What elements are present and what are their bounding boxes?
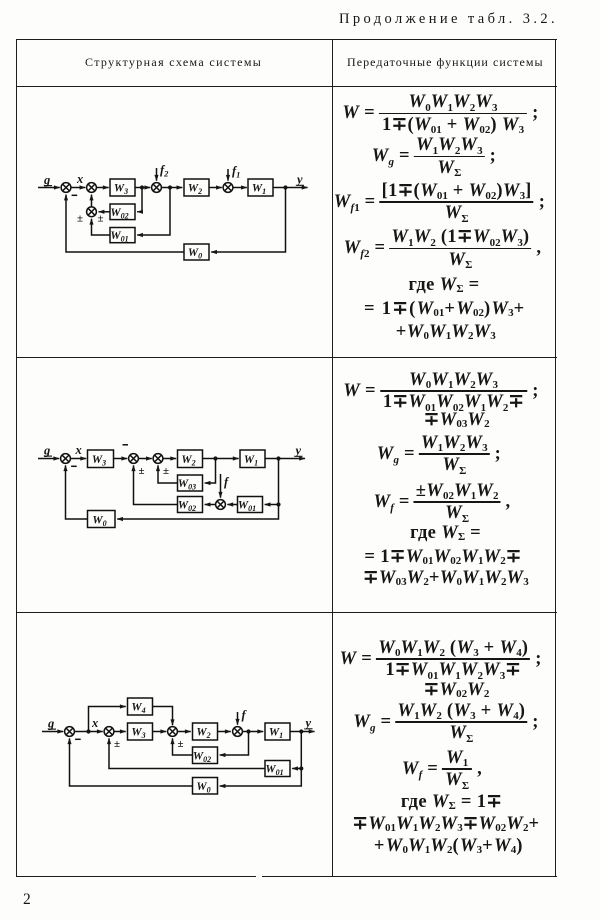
block W03 <box>178 475 203 492</box>
node output dot <box>283 185 287 189</box>
wire W2 to W1 <box>203 458 239 460</box>
summing junction S1 <box>61 183 71 193</box>
page number <box>23 891 31 909</box>
wire W01 to S5 <box>227 504 237 506</box>
wire f into S4 <box>237 712 239 725</box>
block W3 <box>88 450 114 468</box>
wire S3 to W2 <box>161 187 182 189</box>
wire W0 to S1 <box>70 738 193 786</box>
wire W2 to S4 <box>218 731 231 733</box>
block W1 <box>265 723 290 740</box>
block W3 <box>128 723 153 740</box>
wire g to S1 <box>38 458 59 460</box>
wire node D to W01 input <box>265 504 279 506</box>
wire node G to W01 input <box>292 768 301 770</box>
wire W01 to S2 <box>109 738 265 768</box>
block W0 <box>184 244 209 261</box>
minus sign at S1 <box>75 738 81 740</box>
summing junction S2 <box>87 183 97 193</box>
block W02 <box>193 747 218 764</box>
wire S4 to W1 <box>242 731 263 733</box>
summing junction S2 <box>104 727 114 737</box>
column headers <box>85 55 262 70</box>
node output dot <box>299 729 303 733</box>
block W02 <box>110 204 135 220</box>
node g input label <box>43 173 52 187</box>
wire output to W0 input <box>211 188 285 253</box>
wire S2 to S3 <box>138 458 151 460</box>
wire W0 to S1 <box>66 195 184 252</box>
wire node C to W03 input <box>205 459 216 484</box>
wire g to S1 <box>38 187 60 189</box>
wire S2 to W3 <box>114 731 126 733</box>
wire S3 to W2 <box>163 458 176 460</box>
summing junction S1 <box>61 454 71 464</box>
block W2 <box>193 723 218 740</box>
node junction dot F <box>246 729 250 733</box>
summing junction S1 <box>65 727 75 737</box>
wire f2 into S3 <box>156 168 158 181</box>
node junction dot G <box>299 766 303 770</box>
wire S1 to S2 <box>74 731 102 733</box>
block W0 <box>88 511 116 529</box>
summing junction S4 <box>223 183 233 193</box>
node y output label <box>294 444 303 458</box>
block W2 <box>178 450 203 468</box>
block W1 <box>248 179 273 196</box>
svg-text:W02: W02 <box>193 751 211 765</box>
svg-text:W01: W01 <box>265 764 283 778</box>
block W1 <box>240 450 265 468</box>
minus sign at S1 <box>72 194 78 196</box>
wire S5 to S2 <box>91 195 93 207</box>
block W01 <box>265 761 290 778</box>
wire W01 to S5 <box>92 219 111 235</box>
summing junction S3 <box>153 454 163 464</box>
table frame <box>16 39 557 40</box>
wire W1 to output y <box>290 731 315 733</box>
block W01 <box>110 228 135 244</box>
wire W3 to S3 <box>153 731 167 733</box>
wire W0 to S1 <box>66 465 88 519</box>
wire f1 into S4 <box>227 169 229 181</box>
node junction dot A <box>140 185 144 189</box>
wire W02 to S3 <box>173 738 193 755</box>
wire W4 to S3 <box>153 707 173 726</box>
wire W3 to S3 <box>135 187 150 189</box>
summing junction S2 <box>129 454 139 464</box>
block W0 <box>193 778 218 795</box>
svg-text:W0: W0 <box>196 781 210 795</box>
summing junction S4 <box>233 727 243 737</box>
node junction dot C <box>213 456 217 460</box>
wire S1 to S2 <box>71 187 85 189</box>
node g input label <box>43 444 52 458</box>
wire node B to W01 input <box>137 188 170 236</box>
node junction dot E <box>86 729 90 733</box>
wire S5 to W02 <box>205 504 216 506</box>
node g input label <box>47 717 56 731</box>
block W02 <box>178 497 203 514</box>
wire f into S5 <box>220 474 222 498</box>
wire node F to W02 input <box>220 732 249 756</box>
svg-text:W1: W1 <box>269 727 283 741</box>
node output dot <box>276 456 280 460</box>
wire S4 to W1 <box>233 187 247 189</box>
svg-text:W2: W2 <box>196 727 210 741</box>
svg-text:±: ± <box>178 738 184 750</box>
svg-text:W3: W3 <box>131 727 145 741</box>
minus sign at S1 <box>71 465 77 467</box>
node junction dot D <box>276 502 280 506</box>
svg-text:y: y <box>304 716 312 730</box>
summing junction S5 <box>216 500 226 510</box>
wire output down to W0 <box>220 732 302 787</box>
wire node E to W4 input <box>89 707 126 732</box>
wire S1 to W3 <box>70 458 86 460</box>
wire W03 to S3 <box>158 465 178 483</box>
block W3 <box>110 179 135 196</box>
svg-text:g: g <box>47 717 54 731</box>
wire S3 to W2 <box>177 731 190 733</box>
summing junction S3 <box>152 183 162 193</box>
minus sign above S2 <box>123 444 129 446</box>
wire W1 to output y <box>265 458 305 460</box>
wire output to W0 input <box>117 459 278 520</box>
summing junction S5 <box>87 207 97 217</box>
wire node A to W02 input <box>137 188 142 212</box>
block W2 <box>184 179 209 196</box>
block W4 <box>128 698 153 715</box>
wire W2 to S4 <box>209 187 222 189</box>
wire W02 to S2 <box>134 465 178 504</box>
node junction dot B <box>168 185 172 189</box>
wire W1 to output y <box>273 187 308 189</box>
wire W02 to S5 <box>99 211 110 213</box>
svg-text:x: x <box>91 716 98 730</box>
page title <box>339 11 558 28</box>
node y output label <box>304 716 313 730</box>
summing junction S3 <box>168 727 178 737</box>
svg-text:W4: W4 <box>131 702 145 716</box>
wire g to S1 <box>42 731 63 733</box>
svg-text:±: ± <box>114 738 120 750</box>
wire S2 to W3 <box>96 187 108 189</box>
wire W3 to S2 <box>114 458 128 460</box>
node y output label <box>295 173 304 187</box>
block W01 <box>238 497 263 514</box>
svg-text:f: f <box>242 708 248 722</box>
